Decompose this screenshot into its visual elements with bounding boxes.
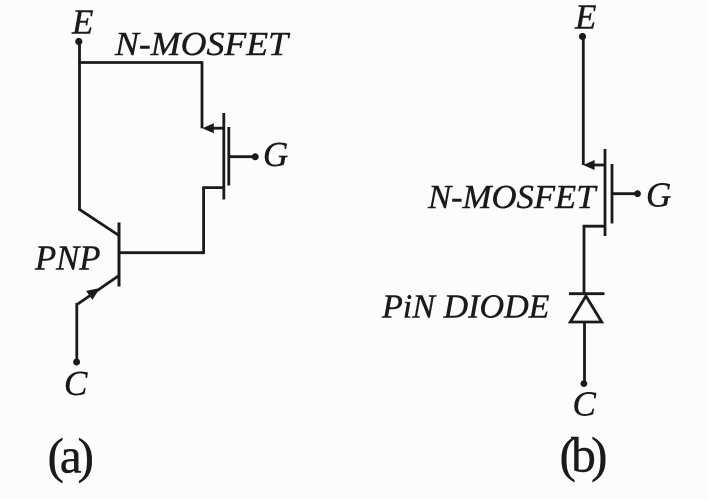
- svg-text:N-MOSFET: N-MOSFET: [114, 26, 290, 63]
- n-mosfet M2 gate terminal dot: [634, 190, 641, 197]
- n-mosfet M2 (circuit b) channel bar: [604, 149, 607, 236]
- pnp transistor Q1 collector diagonal (lower): [78, 276, 119, 305]
- wire: down to MOSFET drain lead (circuit a): [201, 61, 204, 128]
- wire: E down to MOSFET drain (circuit b): [582, 37, 585, 165]
- n-mosfet M2 gate bar: [611, 164, 614, 224]
- n-mosfet M1 gate terminal dot: [252, 153, 259, 160]
- svg-text:PNP: PNP: [34, 239, 100, 278]
- n-mosfet M2 gate lead: [612, 192, 635, 195]
- n-mosfet M2 drain lead with arrow: [590, 164, 605, 167]
- n-mosfet M1 gate lead: [229, 155, 253, 158]
- svg-text:E: E: [71, 3, 93, 42]
- wire: E down to PNP emitter (circuit a): [78, 42, 81, 211]
- n-mosfet M2 source lead: [584, 226, 605, 294]
- svg-text:G: G: [263, 135, 288, 174]
- svg-text:C: C: [573, 385, 597, 424]
- svg-text:(a): (a): [48, 428, 95, 483]
- svg-text:(b): (b): [560, 428, 608, 483]
- pnp transistor Q1 base bar: [118, 223, 121, 287]
- n-mosfet M1 gate bar: [227, 127, 230, 186]
- svg-text:G: G: [646, 176, 671, 215]
- n-mosfet M1 (circuit a) channel bar: [222, 113, 225, 200]
- svg-text:C: C: [64, 364, 88, 403]
- node E (circuit b) terminal dot: [579, 33, 586, 40]
- diode D1 triangle: [570, 296, 601, 322]
- n-mosfet M1 drain lead with arrow: [208, 127, 224, 130]
- svg-text:PiN DIODE: PiN DIODE: [381, 289, 550, 326]
- node C (circuit b) terminal dot: [581, 380, 588, 387]
- wire: PNP base to MOSFET source (circuit a): [119, 251, 205, 254]
- node E (circuit a) terminal dot: [75, 38, 82, 45]
- node C (circuit a) terminal dot: [73, 359, 80, 366]
- wire: PNP collector down to C (circuit a): [75, 303, 78, 360]
- n-mosfet M1 source lead: [204, 188, 224, 253]
- svg-text:E: E: [574, 0, 596, 37]
- wire: top horizontal from E branch to MOSFET drain (circuit a): [78, 61, 202, 64]
- diode D1 cathode bar: [569, 292, 605, 295]
- wire: diode anode down to C (circuit b): [583, 322, 586, 382]
- pnp transistor Q1 emitter diagonal (upper): [79, 209, 119, 235]
- n-mosfet M1 arrowhead: [202, 123, 214, 133]
- svg-text:N-MOSFET: N-MOSFET: [427, 179, 598, 216]
- pnp transistor Q1 emitter arrowhead: [86, 288, 100, 300]
- n-mosfet M2 arrowhead: [583, 160, 595, 170]
